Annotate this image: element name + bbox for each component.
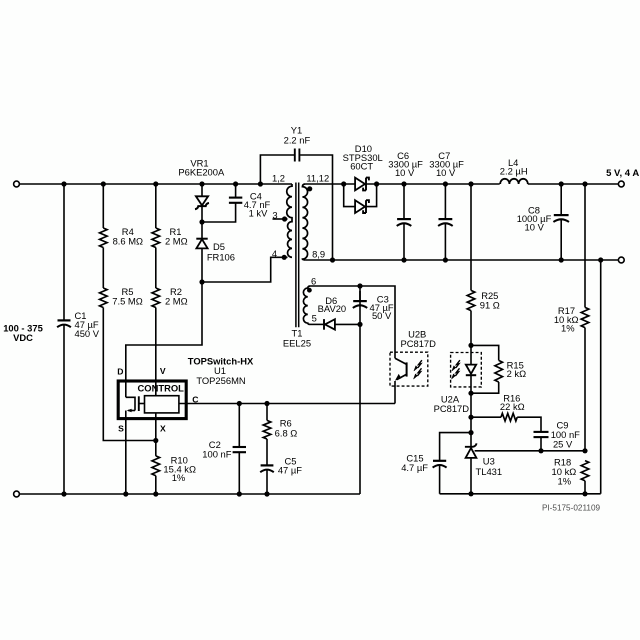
wire: bias pin6 to U2B collector [310,286,395,358]
resistor R18 [581,461,589,481]
wire: R1 top lead [155,184,157,228]
label R17 [554,305,579,334]
wire: R16 to C9 [517,417,541,432]
label: input voltage 100-375 VDC [3,322,43,343]
svg-text:S: S [118,423,124,433]
U2B package outline [390,352,428,386]
capacitor C7 [438,219,453,226]
transformer T1 secondary winding [302,184,307,260]
label C1 value [75,310,100,339]
svg-text:2 MΩ: 2 MΩ [165,235,188,246]
node: D6 anode junction [357,322,362,327]
resistor R5 [100,288,108,308]
wire: R16 node to C15 node [470,417,472,432]
wire: R17 to ref node [584,328,586,451]
wire: C15 branch [440,433,471,460]
label R16 [500,392,525,412]
U2A package outline [451,353,482,387]
node: D10 loop left [341,181,346,186]
node: rail junction R1 [153,181,158,186]
node: U2A anode / R15 junction [468,343,473,348]
label C5 [278,455,302,475]
transistor U2B phototransistor [395,358,407,403]
node: rail junction VR1 [199,181,204,186]
wire: D5 top lead [201,222,203,239]
wire: secondary return to ground rail [600,260,602,494]
svg-text:BAV20: BAV20 [318,303,347,314]
svg-text:FR106: FR106 [207,252,235,263]
resistor R4 [100,228,108,248]
svg-text:8.6 MΩ: 8.6 MΩ [113,235,143,246]
node: X junction [153,438,158,443]
node: C8 top [559,181,564,186]
svg-text:D: D [117,366,123,376]
svg-text:2.2 µH: 2.2 µH [500,166,528,177]
label T1 EEL25 [283,328,311,349]
node: S on ground rail [123,491,128,496]
svg-text:11,12: 11,12 [306,172,329,183]
wire: C9 lower lead [540,437,542,451]
pin label X [160,423,166,433]
label C8 [517,204,552,232]
svg-text:8,9: 8,9 [312,248,325,259]
wire: C8 lower lead [560,220,562,261]
label R5 [112,286,142,307]
svg-text:PI-5175-021109: PI-5175-021109 [542,503,601,512]
wire: pin 3 stub [273,218,288,220]
pin label S [118,423,124,433]
label C7 [429,150,464,178]
svg-text:3: 3 [272,209,277,220]
node: C9 on ref line [538,448,543,453]
output terminal - (right) [618,257,624,263]
wire: R1-R2 link [155,248,157,289]
svg-text:PC817D: PC817D [400,338,436,349]
diode D10 top half [355,178,369,191]
resistor R2 [152,288,160,308]
node: R16 junction [468,415,473,420]
wire: secondary rectified rail [305,183,618,185]
wire: secondary return rail [305,259,618,261]
label U1 TOPSwitch-HX [188,356,254,387]
wire: C6 upper lead [403,184,405,218]
node: C8 bottom [559,257,564,262]
resistor R15 [495,360,503,382]
wire: C15 lower lead [439,465,441,494]
label D6 [318,295,347,314]
wire: R6-C5 link [266,439,268,465]
node: bias phase dot (6) [307,288,312,293]
diode D10 bottom half [355,200,369,213]
svg-text:V: V [160,366,166,376]
wire: C6 lower lead [403,224,405,261]
svg-text:2 kΩ: 2 kΩ [507,368,527,379]
svg-text:1,2: 1,2 [272,172,285,183]
inductor L4 [500,179,528,184]
svg-text:91 Ω: 91 Ω [480,299,500,310]
wire: clamp node to pin 4 [202,257,288,282]
IC U1 inner control block [145,396,179,413]
svg-text:1 kV: 1 kV [249,208,269,219]
label C3 [370,294,394,322]
capacitor C15 [433,461,447,468]
node: rail junction R4 [101,181,106,186]
label L4 [500,157,528,177]
wire: R25 upper lead (crosses return rail) [470,184,472,290]
node: D5 anode / pin4 / D-pin junction [199,279,204,284]
node: C7 top [443,181,448,186]
LED U2A [466,345,476,393]
node: rail junction C4 [233,181,238,186]
svg-text:VDC: VDC [13,332,33,343]
U2A light arrows [452,360,460,379]
wire: Y1 left leg [260,155,294,184]
label U2B [400,329,436,349]
wire: R17 upper lead (crosses return rail) [584,184,586,307]
svg-text:4: 4 [272,248,277,259]
label C2 [202,439,231,459]
svg-text:5: 5 [312,312,317,323]
wire: R4 top lead [102,184,104,228]
wire: C1 column lower [63,325,65,494]
wire: C7 upper lead [444,184,446,218]
resistor R16 [501,413,517,421]
node: C5 on ground rail [264,491,269,496]
pin label 5 [312,312,317,323]
output terminal + (right) [618,181,624,187]
wire: R15 bottom [471,382,499,393]
svg-text:2.2 nF: 2.2 nF [284,135,311,146]
node: rail junction Y1 [258,181,263,186]
label U2A [434,394,470,414]
wire: C2 upper lead [238,404,240,448]
wire: R16 left lead [471,416,501,418]
wire: C4 bottom to clamp node [202,203,236,222]
node: primary phase dot pin 4 [282,255,287,260]
node: return column top [598,257,603,262]
svg-text:60CT: 60CT [350,160,373,171]
label R15 [507,359,527,379]
wire: C7 lower lead [444,224,446,261]
label R2 [165,286,188,307]
svg-text:100 nF: 100 nF [202,448,231,459]
svg-text:CONTROL: CONTROL [138,383,185,394]
node: C6 top [401,181,406,186]
wire: D10 parallel loop [344,184,377,207]
label output 5V 4A [606,168,639,179]
zener VR1 (TVS) [195,184,209,222]
wire: HV+ input rail from input terminal to transformer pin 1,2 [17,183,293,185]
svg-text:6: 6 [311,275,316,286]
resistor R25 [467,290,475,310]
wire: LED cathode to R16 node [470,393,472,417]
svg-text:EEL25: EEL25 [283,338,311,349]
node: D10 loop right [374,181,379,186]
capacitor C9 [534,432,549,437]
pin label 11,12 [306,172,329,183]
wire: R2 to V pin [155,308,157,396]
resistor R10 [152,456,160,476]
label R6 [275,417,298,438]
label R18 [552,456,577,486]
svg-text:5 V, 4 A: 5 V, 4 A [606,168,639,179]
label CONTROL [138,383,185,394]
diode D6 [324,319,360,330]
svg-text:10 V: 10 V [525,222,545,233]
svg-text:50 V: 50 V [372,310,392,321]
transformer T1 core [296,183,299,328]
node: LED cathode / R15 junction [468,391,473,396]
svg-text:7.5 MΩ: 7.5 MΩ [112,296,142,307]
wire: Y1 right leg [300,155,332,260]
wire: R4-R5 link [102,248,104,289]
wire: R10 to ground rail [155,476,157,494]
wire: C1 column upper [63,184,65,320]
wire: C4 top lead [235,184,237,197]
shunt regulator U3 TL431 [465,443,477,493]
wire: primary ground rail [17,493,361,495]
svg-text:1%: 1% [561,323,575,334]
capacitor C5 [260,465,274,472]
capacitor C1 [57,320,71,327]
pin label 3 [272,209,277,220]
svg-text:25 V: 25 V [553,438,573,449]
svg-text:4.7 µF: 4.7 µF [401,462,428,473]
node: C7 bottom [443,257,448,262]
wire: R25 to opto anode [470,311,472,346]
svg-text:10 V: 10 V [395,167,415,178]
node: C1 ground [61,491,66,496]
wire: X pin stub [155,413,157,456]
pin label 4 [272,248,277,259]
input terminal + (top left) [14,181,20,187]
wire: R5 to X pin [103,308,156,441]
pin label C [192,394,198,404]
node: C3 top on bias wire [357,283,362,288]
node: R25 top [468,181,473,186]
resistor R1 [152,228,160,248]
wire: C2 lower lead [238,452,240,494]
svg-text:22 kΩ: 22 kΩ [500,401,525,412]
node: C15 junction [468,430,473,435]
capacitor C6 [397,219,412,226]
label C6 [388,150,423,178]
label R4 [113,226,143,246]
svg-text:47 µF: 47 µF [278,464,302,475]
wire: R6 upper lead [266,404,268,421]
capacitor C8 [553,215,569,222]
wire: C8 upper lead [560,184,562,214]
label U3 [476,456,503,477]
node: C2 on ground rail [237,491,242,496]
svg-text:TL431: TL431 [476,466,503,477]
wire: C15 node to TL431 [470,433,472,447]
node: VR1/C4/D5 junction [199,219,204,224]
wire: S pin to ground rail [125,420,127,495]
transformer T1 primary winding [287,184,292,257]
label D10 [343,143,383,172]
node: Y1 on secondary return [330,257,335,262]
svg-text:1%: 1% [558,475,572,486]
svg-text:1%: 1% [172,472,186,483]
wire: clamp node down to D pin [126,282,202,397]
node: TL431 anode on ground rail [468,491,473,496]
node: R10 on ground rail [153,491,158,496]
wire: secondary ground rail [440,493,601,495]
node: R18 on ground rail [582,491,587,496]
svg-text:450 V: 450 V [75,328,100,339]
node: R6 tap [264,401,269,406]
node: ref node at R17/R18 [582,448,587,453]
label D5 [207,241,235,262]
wire: R15 branch [471,345,499,360]
label R1 [165,226,188,246]
svg-text:TOP256MN: TOP256MN [196,375,245,386]
label R10 [163,455,196,483]
wire: bias/C3 ground column [359,286,361,494]
svg-text:PC817D: PC817D [434,403,470,414]
wire: bias pin5 to D6 [310,323,323,325]
node: primary phase dot pin 3 [282,216,287,221]
capacitor C3 [353,291,367,308]
wire: C5 lower lead [266,470,268,494]
label C15 [401,453,428,473]
transformer T1 bias winding [303,286,310,324]
node: secondary phase dot (11,12) [307,186,312,191]
resistor R17 [581,307,589,327]
pin label D [117,366,123,376]
capacitor C2 [233,447,246,452]
svg-text:6.8 Ω: 6.8 Ω [275,428,298,439]
capacitor Y1 [295,149,300,162]
svg-text:X: X [160,423,166,433]
U2B light arrows [414,360,422,379]
pin label V [160,366,166,376]
resistor R6 [263,420,271,439]
node: R17 top [582,181,587,186]
label Y1 [284,124,311,145]
capacitor C4 [229,198,242,203]
node: C2 tap [237,401,242,406]
transistor: U1 internal MOSFET [126,396,145,419]
wire: C pin to opto emitter [179,403,395,405]
node: C6 bottom [401,257,406,262]
label: drawing number PI-5175-021109 [542,503,601,512]
label VR1 [178,158,225,178]
label R25 [480,290,500,310]
svg-text:10 V: 10 V [436,167,456,178]
pin label 8,9 [312,248,325,259]
label C4 [244,191,271,219]
svg-text:2 MΩ: 2 MΩ [165,296,188,307]
pin label 6 [311,275,316,286]
svg-text:P6KE200A: P6KE200A [178,167,225,178]
IC U1 TOPSwitch-HX outer box [118,381,186,419]
input terminal - (bottom left) [14,491,20,497]
wire: R18 lower lead [584,481,586,494]
label C9 [551,420,580,450]
diode D5 [196,239,207,282]
node: rail junction C1 [61,181,66,186]
pin label 1,2 [272,172,285,183]
wire: TL431 ref line [475,450,585,452]
